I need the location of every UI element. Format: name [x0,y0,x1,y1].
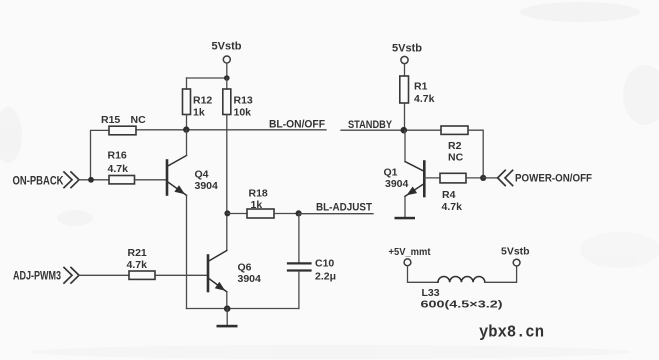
wire: STANDBY net [341,129,441,131]
node: BL-ADJUST / C10 junction [296,210,302,216]
wire: 5Vstb terminal to node [226,63,228,78]
wire: Q4 emitter down to bottom rail [186,195,188,308]
resistor R15 [109,126,136,135]
resistor R12 [183,89,191,115]
wire: Q1 base to R4 [424,177,440,179]
wire: ADJ-PWM3 to R21 [79,274,129,276]
svg-text:4.7k: 4.7k [442,201,463,213]
svg-text:3904: 3904 [195,180,219,192]
node: bottom rail / ground junction [224,305,231,312]
wire: C10 top lead [298,214,300,263]
node: POWER-ON/OFF junction [480,175,486,181]
resistor R13 [223,89,231,115]
svg-text:Q1: Q1 [384,167,398,179]
ground (Q1 emitter) [395,217,416,220]
resistor R21 [129,271,155,279]
wire: R21 to Q6 base [155,274,207,276]
wire: terminal to R1 [404,64,406,76]
svg-text:NC: NC [448,152,464,164]
resistor R2 [441,126,468,134]
svg-text:STANDBY: STANDBY [348,119,393,131]
svg-text:ybx8.cn: ybx8.cn [479,324,544,343]
svg-text:R13: R13 [234,95,253,107]
wire: R16 to Q4 base [135,179,167,181]
wire: coil to 5Vstb terminal [485,266,517,282]
wire: Q1 emitter to ground [404,196,406,217]
svg-text:1k: 1k [251,199,263,211]
node: ON-PBACK / R15 junction [88,177,94,183]
ground (main) [217,309,238,328]
svg-text:POWER-ON/OFF: POWER-ON/OFF [515,172,592,184]
resistor R16 [109,176,135,184]
svg-text:3904: 3904 [238,273,262,285]
wire: R15 left lead and corner [91,130,110,179]
svg-text:R1: R1 [414,81,428,93]
svg-text:4.7k: 4.7k [108,163,129,175]
svg-text:R4: R4 [442,189,456,201]
node: STANDBY junction [401,127,408,134]
svg-text:R2: R2 [448,140,462,152]
wire: R12 top lead [186,78,188,89]
wire: R18 to BL-ADJUST node [274,213,299,215]
resistor R1 [400,76,409,103]
resistor R4 [440,173,466,183]
svg-text:ADJ-PWM3: ADJ-PWM3 [13,270,61,282]
svg-text:Q6: Q6 [238,262,252,274]
wire: node to R18 [227,213,247,215]
node: R12/R13 supply junction [224,75,230,81]
wire: Q6 emitter down to bottom rail [226,292,228,309]
svg-text:1k: 1k [193,107,205,119]
inductor L33 [438,276,485,282]
svg-text:R12: R12 [193,95,212,107]
svg-text:C10: C10 [315,258,334,270]
wire: R4 to POWER node [466,177,483,179]
terminal 5Vstb (inductor) [513,259,520,266]
wire: Q4 collector up to BL-ON/OFF [186,130,188,156]
svg-text:4.7k: 4.7k [414,93,435,105]
wire: R2 right to POWER node [468,130,483,178]
node: Q4 collector / R12 / BL-ON-OFF [183,126,189,132]
wire: +5V_mmt to coil [408,266,439,283]
svg-text:BL-ADJUST: BL-ADJUST [316,202,372,214]
svg-text:4.7k: 4.7k [127,259,148,271]
transistor Q1 [405,162,424,197]
wire: BL-ADJUST net [299,213,373,215]
svg-text:ON-PBACK: ON-PBACK [13,175,65,187]
terminal +5V_mmt [404,259,411,266]
wire: ON-PBACK to R16 [79,179,109,181]
svg-text:NC: NC [131,114,147,126]
input chevron ADJ-PWM3 [64,268,79,284]
wire: node to R12 top [187,77,227,79]
wire: BL-ON/OFF net [136,129,326,131]
wire: R13 bottom down to R18 node [226,115,228,251]
wire: R12 bottom lead [186,115,188,130]
svg-text:R18: R18 [249,188,268,200]
svg-text:R15: R15 [101,114,120,126]
svg-text:5Vstb: 5Vstb [501,246,530,258]
svg-text:L33: L33 [422,287,440,299]
terminal 5Vstb (right) [401,56,408,63]
wire: bottom rail [187,308,299,310]
input chevron POWER-ON/OFF [498,170,513,185]
svg-text:2.2μ: 2.2μ [315,271,336,283]
svg-text:R16: R16 [108,150,127,162]
svg-text:5Vstb: 5Vstb [212,41,242,53]
svg-text:3904: 3904 [385,178,409,190]
input chevron ON-PBACK [64,172,79,188]
wire: Q1 collector up to STANDBY [404,130,406,161]
svg-text:BL-ON/OFF: BL-ON/OFF [269,118,325,130]
svg-text:5Vstb: 5Vstb [392,43,422,55]
transistor Q6 [208,251,227,292]
wire: R13 top lead [226,78,228,89]
wire: C10 bottom lead [298,272,300,309]
svg-text:600(4.5×3.2): 600(4.5×3.2) [421,299,503,311]
transistor Q4 [167,156,187,196]
capacitor C10 [288,263,311,270]
wire: R1 bottom to STANDBY node [404,103,406,130]
svg-text:Q4: Q4 [195,169,209,181]
svg-text:R21: R21 [128,247,147,259]
svg-text:10k: 10k [234,107,252,119]
wire: node to chevron [483,177,497,179]
svg-text:+5V_mmt: +5V_mmt [389,246,431,258]
resistor R18 [247,209,274,218]
terminal 5Vstb (left) [223,56,230,63]
node: R13 / R18 junction [224,210,230,216]
